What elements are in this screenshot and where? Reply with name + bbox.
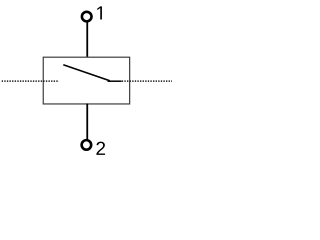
switch body outline bbox=[43, 57, 129, 104]
pin 1 label "1" bbox=[97, 6, 102, 19]
pin 2 label "2" bbox=[96, 142, 105, 155]
wire: bottom lead from switch body to pin 2 bbox=[86, 104, 88, 142]
wire: top lead from pin 1 to switch body bbox=[86, 20, 88, 58]
pin 1 terminal circle bbox=[82, 12, 92, 22]
pin 2 terminal circle bbox=[82, 140, 92, 150]
switch blade (open contact) bbox=[63, 65, 110, 81]
actuator dotted line (right) bbox=[122, 80, 172, 82]
actuator dotted line (left) bbox=[2, 80, 59, 82]
switch fixed contact bar bbox=[108, 80, 122, 82]
